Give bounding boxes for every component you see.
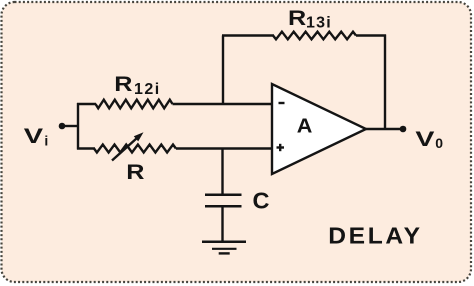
svg-text:13i: 13i (306, 15, 332, 32)
wire capacitor tap vertical (221, 149, 223, 195)
wire feedback top left segment (222, 34, 274, 36)
svg-text:0: 0 (435, 135, 443, 151)
capacitor C plates (205, 195, 242, 207)
label R13i (288, 6, 332, 32)
wire bottom branch lead-in (77, 147, 95, 149)
wire feedback left vertical tap (222, 36, 224, 105)
variable resistor arrow (112, 132, 144, 160)
svg-text:V: V (24, 125, 43, 148)
wire capacitor to ground (221, 207, 223, 242)
op-amp minus sign (279, 102, 285, 104)
wire feedback top right segment (356, 34, 386, 36)
wire top branch lead-in (77, 103, 96, 105)
label Vi (24, 125, 48, 149)
wire left vertical between branches (77, 103, 79, 150)
wire feedback right vertical to output (384, 35, 386, 131)
wire bottom branch to op-amp plus input (176, 147, 272, 149)
svg-text:12i: 12i (134, 81, 161, 98)
node V0 output dot (400, 126, 407, 133)
svg-text:C: C (253, 188, 270, 214)
wire input stub (64, 125, 78, 127)
svg-text:i: i (44, 133, 48, 149)
svg-text:V: V (415, 128, 434, 151)
svg-text:R: R (126, 160, 144, 184)
wire top branch to op-amp minus input (173, 103, 273, 105)
label V0 (415, 128, 443, 151)
resistor R13i (273, 32, 356, 40)
resistor R12i (96, 100, 173, 109)
variable resistor R zigzag (94, 145, 176, 153)
svg-text:R: R (114, 72, 132, 96)
wire output (366, 128, 401, 130)
svg-text:R: R (288, 6, 306, 30)
op-amp plus sign (277, 144, 285, 151)
svg-text:DELAY: DELAY (328, 223, 422, 249)
svg-text:A: A (297, 115, 313, 137)
ground (202, 242, 246, 254)
op-amp A triangle (272, 84, 366, 174)
node Vi input dot (59, 123, 66, 130)
label R12i (114, 72, 160, 98)
